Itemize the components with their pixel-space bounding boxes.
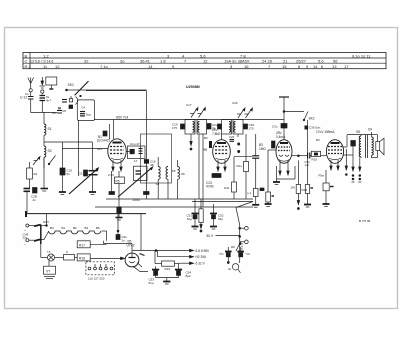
output transformer S8/S9: [356, 128, 373, 159]
svg-text:R14: R14: [302, 188, 308, 192]
box R3 with C10: [126, 142, 145, 158]
mains terminals: [23, 224, 29, 247]
coil S2: [44, 138, 52, 168]
heater feed arrow into B5: [90, 257, 125, 260]
wire: [109, 124, 111, 140]
junction blob 2: [144, 192, 150, 195]
fuse Z: [64, 250, 78, 260]
svg-text:6 32 V: 6 32 V: [196, 262, 206, 266]
svg-text:R1o: R1o: [236, 164, 242, 168]
svg-text:C3o: C3o: [272, 125, 278, 129]
svg-text:5,6: 5,6: [318, 59, 324, 64]
box MA: [46, 77, 57, 89]
tuning gang capacitor: [69, 142, 99, 194]
svg-text:S8: S8: [356, 130, 360, 134]
svg-text:1MΩ: 1MΩ: [259, 147, 266, 151]
svg-text:C26: C26: [232, 101, 238, 105]
svg-text:R1: R1: [34, 172, 38, 176]
heater wire to C53: [133, 266, 148, 271]
svg-text:110 127 220: 110 127 220: [88, 277, 105, 281]
svg-text:25/27: 25/27: [296, 59, 307, 64]
svg-text:175: 175: [249, 127, 254, 131]
svg-text:Gr: Gr: [228, 267, 231, 271]
svg-text:C1: C1: [25, 92, 29, 96]
padder box: [134, 166, 148, 180]
cathode ground blob tube2: [206, 174, 221, 189]
svg-text:B4: B4: [316, 138, 320, 142]
resistor R11: [232, 157, 253, 199]
table row R text: [25, 64, 350, 69]
svg-text:3o: 3o: [120, 59, 125, 64]
svg-text:46V: 46V: [97, 147, 102, 151]
svg-text:32: 32: [84, 59, 89, 64]
capacitor C3: [40, 95, 52, 113]
svg-text:S6: S6: [181, 172, 185, 176]
svg-text:50 V: 50 V: [206, 234, 213, 238]
capacitor pair left bottom: [24, 189, 31, 214]
svg-text:64µ: 64µ: [218, 217, 223, 221]
svg-text:UY42: UY42: [127, 244, 135, 248]
capacitor C29: [244, 123, 255, 130]
svg-text:7,1o: 7,1o: [100, 64, 109, 69]
IFT1 coil box left: [185, 120, 195, 135]
svg-text:56: 56: [333, 59, 338, 64]
wire: [221, 134, 223, 140]
svg-text:14: 14: [148, 64, 153, 69]
svg-text:R17: R17: [79, 243, 85, 247]
svg-text:B2: B2: [73, 226, 77, 230]
osc coil S4: [156, 157, 161, 199]
oscillator box: [141, 134, 172, 183]
wire grid line: [94, 119, 284, 121]
voltage selector: [86, 262, 115, 281]
antenna: [28, 78, 34, 97]
svg-text:8µ2: 8µ2: [186, 274, 191, 278]
svg-text:1,2: 1,2: [43, 53, 49, 58]
capacitor C33: [305, 153, 311, 168]
ground arrow top-left: [40, 77, 46, 95]
marks below transformer: [352, 158, 362, 183]
dial lamp La: [41, 244, 64, 261]
svg-text:2o64: 2o64: [133, 198, 140, 202]
padder arrow: [118, 167, 153, 197]
svg-text:2,2V: 2,2V: [108, 173, 114, 177]
capacitor C20: [207, 123, 218, 130]
capacitor under S2: [41, 157, 49, 191]
svg-text:R8: R8: [203, 148, 207, 152]
filter C54: [175, 264, 182, 278]
svg-text:C1o 47: C1o 47: [130, 142, 140, 146]
mains switch SK3: [29, 214, 49, 244]
capacitor C6: [79, 170, 88, 176]
switch contact: [48, 156, 55, 165]
capacitor C50 on heater line: [116, 231, 127, 242]
svg-text:15: 15: [282, 64, 287, 69]
wire grid tube1: [62, 148, 108, 150]
filter C53: [152, 266, 159, 277]
svg-text:5oµ: 5oµ: [149, 281, 154, 285]
svg-text:U 12: U 12: [20, 96, 27, 100]
wire to SK1: [86, 90, 147, 92]
svg-text:175: 175: [172, 126, 177, 130]
svg-text:5oµ: 5oµ: [187, 217, 192, 221]
svg-text:VT: VT: [46, 270, 50, 274]
capacitor C2B: [31, 188, 37, 202]
resistor R13: [265, 150, 276, 206]
svg-text:S1: S1: [48, 127, 52, 131]
svg-text:B1: B1: [62, 226, 66, 230]
svg-text:C17: C17: [186, 103, 192, 107]
long wire busC: [95, 206, 253, 208]
wire: [307, 120, 309, 153]
svg-text:B3: B3: [50, 226, 54, 230]
electrolytic cap pair: [219, 247, 251, 264]
svg-text:R5: R5: [116, 179, 120, 183]
svg-text:2n: 2n: [122, 238, 126, 242]
svg-text:B 7/5 08: B 7/5 08: [359, 219, 371, 223]
svg-text:(UCH42): (UCH42): [97, 139, 110, 143]
ground bottom: [156, 278, 179, 285]
box R15 grid of tube4: [310, 151, 326, 161]
rectifier tube B5: [103, 240, 144, 268]
band switch SK1: [58, 81, 147, 113]
wire: [255, 134, 257, 156]
svg-text:1M: 1M: [291, 186, 296, 190]
wire: [237, 134, 239, 137]
speaker: [372, 135, 385, 158]
volume pot section: [206, 225, 248, 263]
svg-text:1 8: 1 8: [160, 59, 166, 64]
svg-text:U2508M: U2508M: [186, 85, 200, 89]
screen wire + cap C38: [343, 141, 355, 172]
svg-text:21: 21: [283, 59, 288, 64]
capacitor C15 column: [59, 142, 72, 194]
svg-text:R18: R18: [79, 256, 85, 260]
svg-text:C25: C25: [229, 135, 235, 139]
resistor R5 below tube1: [108, 171, 125, 199]
capacitor C16: [134, 159, 156, 167]
resistor R10: [244, 134, 249, 199]
svg-text:S4: S4: [156, 182, 160, 186]
switch SK2: [303, 112, 315, 121]
resistor R16: [199, 199, 203, 232]
svg-text:B2: B2: [204, 136, 208, 140]
svg-text:14: 14: [313, 64, 318, 69]
capacitor C28: [218, 124, 222, 129]
svg-text:6 8 8 98V: 6 8 8 98V: [196, 249, 211, 253]
svg-text:7 8: 7 8: [240, 53, 246, 58]
svg-text:17oV 185mA: 17oV 185mA: [316, 130, 335, 134]
capacitor C30: [272, 124, 287, 129]
svg-text:B: B: [25, 53, 28, 58]
capacitor C2: [52, 111, 62, 116]
svg-text:12: 12: [203, 59, 208, 64]
svg-text:17: 17: [134, 159, 138, 163]
svg-text:C4: C4: [81, 106, 85, 110]
svg-text:24 26: 24 26: [262, 59, 273, 64]
svg-text:C6: C6: [79, 172, 83, 176]
svg-text:C2: C2: [52, 111, 56, 115]
capacitor C51: [186, 199, 198, 229]
svg-text:5op: 5op: [86, 113, 91, 117]
wire: [113, 120, 115, 140]
svg-text:S5: S5: [172, 169, 176, 173]
svg-text:∼: ∼: [24, 243, 27, 247]
svg-text:La: La: [47, 250, 51, 254]
svg-text:SK3: SK3: [43, 220, 49, 224]
svg-text:R 2: R 2: [25, 64, 32, 69]
voltage arrows: [158, 249, 211, 266]
chassis bus: [26, 211, 146, 217]
svg-text:S2: S2: [48, 149, 52, 153]
filter resistor R19: [155, 250, 179, 267]
heater return wire: [117, 213, 119, 232]
wire: [202, 134, 204, 207]
svg-text:R9: R9: [231, 245, 235, 249]
wire plate tube4: [343, 135, 372, 147]
capacitor C52: [210, 204, 224, 229]
svg-text:9,1o 1s 11: 9,1o 1s 11: [352, 53, 371, 58]
svg-text:B5: B5: [96, 226, 100, 230]
svg-text:C8: C8: [62, 109, 66, 113]
svg-text:13 5,8 7,9 14,6: 13 5,8 7,9 14,6: [30, 60, 53, 64]
svg-text:R15: R15: [312, 158, 318, 162]
svg-text:4n7B: 4n7B: [206, 185, 213, 189]
svg-text:H2 39A: H2 39A: [196, 255, 208, 259]
coil S1: [44, 112, 52, 138]
svg-text:36,41: 36,41: [140, 59, 151, 64]
capacitor C19: [172, 123, 185, 130]
tube B1 (UCH42): [97, 116, 128, 171]
tube B3 (UAF42 det): [259, 131, 292, 175]
junction blob 1: [109, 192, 115, 195]
osc coil S5: [166, 167, 176, 200]
IFT2 trimmers: [237, 108, 253, 118]
svg-text:4n: 4n: [33, 198, 37, 202]
svg-text:1on: 1on: [305, 163, 310, 167]
wire: [31, 112, 57, 114]
resistor vertical x326: [323, 170, 334, 207]
resistor R18: [77, 254, 90, 261]
svg-text:5o: 5o: [67, 172, 71, 176]
pickup Gr: [232, 264, 240, 273]
VT box: [44, 261, 56, 279]
AF coupling line: [292, 155, 308, 157]
svg-text:Z: Z: [66, 250, 68, 254]
misc small value labels: [43, 101, 320, 285]
capacitor C31: [272, 141, 276, 148]
IFT1 coil box right: [197, 120, 207, 135]
coil S6: [178, 160, 186, 199]
svg-text:0,4mA: 0,4mA: [276, 135, 286, 139]
svg-text:R19: R19: [165, 267, 171, 271]
resistor R17: [77, 241, 106, 248]
svg-text:5,6: 5,6: [200, 53, 206, 58]
cathode loop tube3: [273, 166, 295, 185]
detector T bar: [279, 97, 304, 140]
svg-text:o,1: o,1: [247, 191, 252, 195]
IFT1 secondary return arrow: [190, 134, 192, 150]
wire segment: [192, 201, 253, 203]
wire: [146, 91, 148, 199]
trimmer C5: [33, 157, 40, 166]
capacitor C9: [103, 131, 107, 136]
svg-text:19A 3o 38A5X: 19A 3o 38A5X: [224, 59, 250, 64]
svg-text:C36 5on: C36 5on: [309, 126, 321, 130]
svg-text:R11: R11: [224, 186, 230, 190]
svg-text:7,8kΩ: 7,8kΩ: [212, 132, 221, 136]
svg-text:12: 12: [55, 64, 60, 69]
resistor R12: [252, 189, 259, 208]
arrow mark right of tube4: [345, 149, 347, 175]
svg-text:22o: 22o: [23, 236, 28, 240]
svg-text:16: 16: [244, 64, 249, 69]
svg-text:13: 13: [332, 64, 337, 69]
svg-text:17: 17: [344, 64, 349, 69]
table row C text: [25, 59, 339, 64]
capacitor C1: [25, 92, 34, 113]
wire: [198, 134, 200, 199]
junction blob: [260, 188, 264, 191]
svg-text:S9: S9: [368, 128, 372, 132]
tube B2 (UAF42): [203, 128, 230, 171]
tube B4 (UL41): [305, 126, 344, 171]
svg-text:A5V 7o4: A5V 7o4: [116, 116, 128, 120]
IFT2 coil box right: [233, 120, 243, 135]
capacitor C22: [116, 199, 123, 220]
svg-text:B4: B4: [85, 226, 89, 230]
IFT1 trimmers: [190, 108, 206, 118]
svg-text:C: C: [25, 59, 28, 64]
svg-text:SK1: SK1: [68, 83, 75, 87]
HT wire to arrows: [132, 213, 186, 264]
diagonal wire to pot: [236, 202, 253, 226]
svg-text:SK2: SK2: [309, 117, 315, 121]
long wire busB: [106, 198, 253, 200]
box C4: [77, 100, 94, 176]
resistor vertical x308: [304, 159, 313, 208]
heater chain: [49, 226, 107, 241]
table row B text: [25, 53, 372, 58]
parts table: [23, 53, 386, 70]
wire S-coils to gang: [44, 141, 93, 143]
resistor R1: [27, 162, 38, 188]
IFT2 coil box left: [222, 120, 232, 135]
svg-text:4n7: 4n7: [46, 99, 51, 103]
resistor vertical x298: [296, 161, 300, 210]
